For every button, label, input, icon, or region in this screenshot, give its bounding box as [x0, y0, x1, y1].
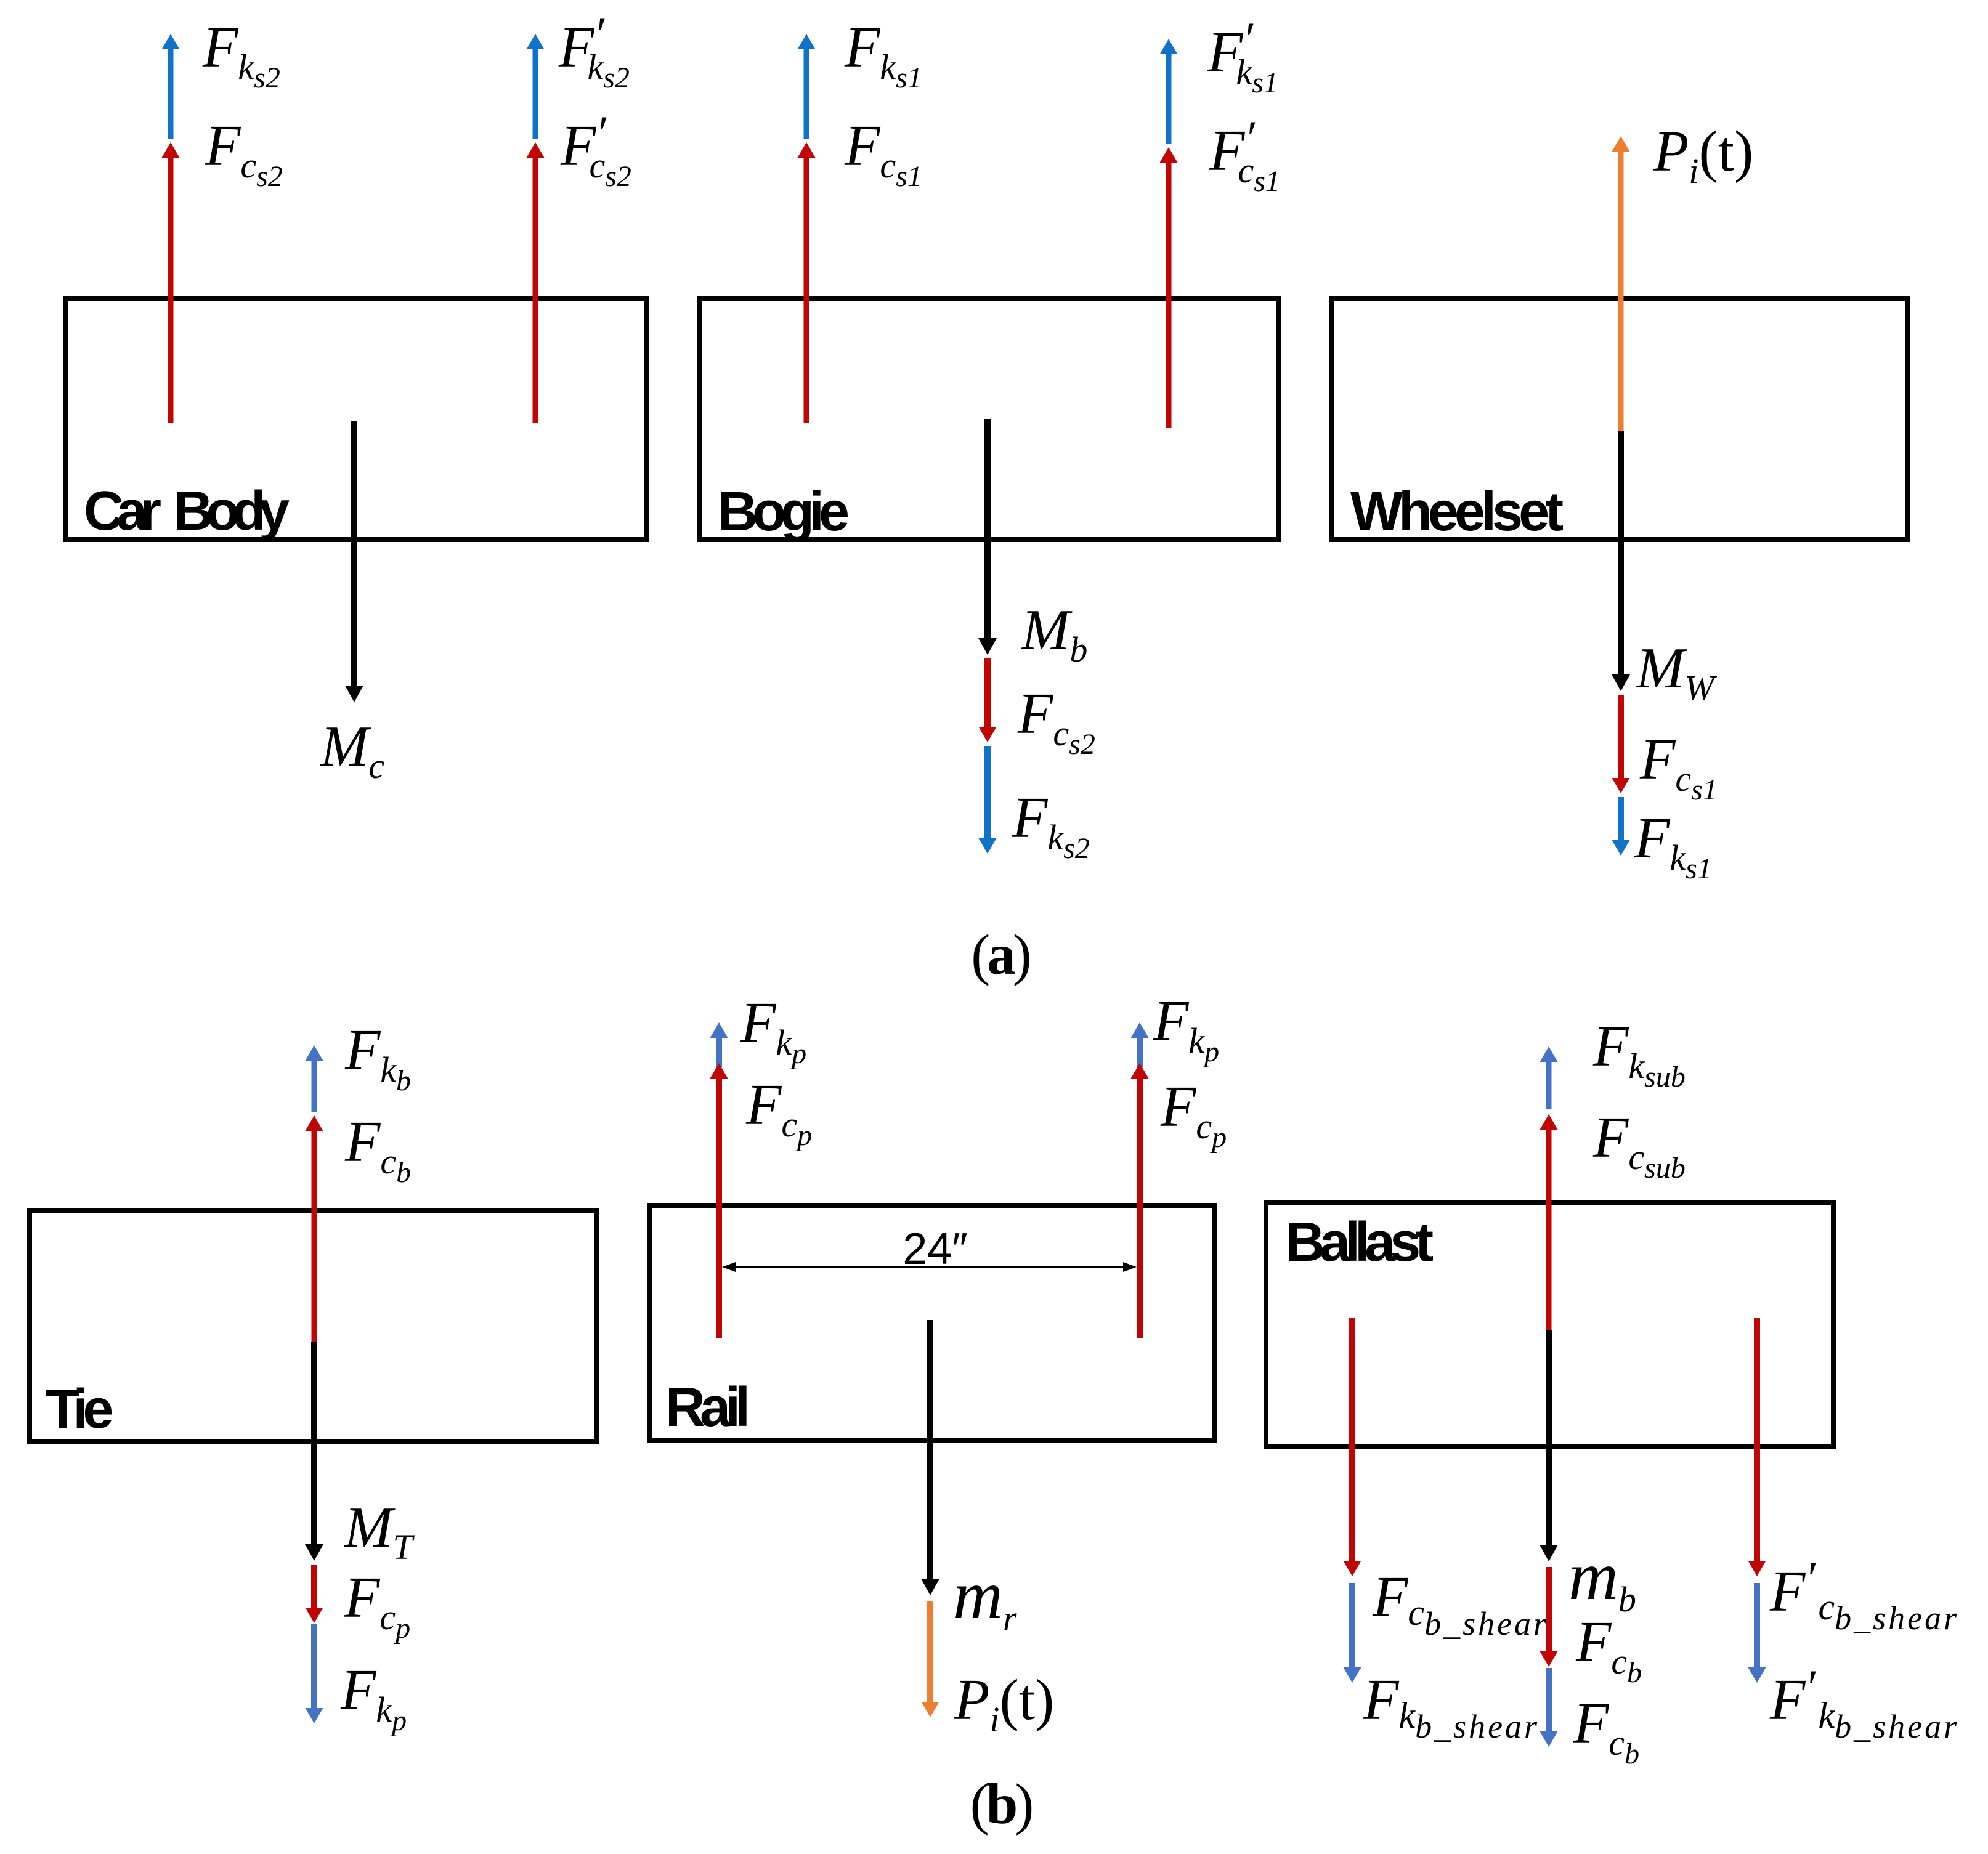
svg-text:F′cb_shear: F′cb_shear — [1769, 1552, 1959, 1637]
svg-text:(a): (a) — [971, 923, 1029, 987]
svg-text:MW: MW — [1635, 636, 1717, 708]
svg-text:Fkp: Fkp — [340, 1658, 407, 1737]
svg-text:F′ks2: F′ks2 — [558, 7, 630, 94]
svg-text:Fcb: Fcb — [344, 1110, 411, 1189]
svg-text:MT: MT — [343, 1496, 415, 1567]
svg-text:Bogie: Bogie — [718, 481, 848, 543]
svg-text:Fcb: Fcb — [1573, 1691, 1639, 1770]
svg-text:Pi(t): Pi(t) — [1653, 119, 1753, 191]
svg-text:(b): (b) — [970, 1773, 1032, 1836]
svg-text:mr: mr — [953, 1557, 1017, 1638]
svg-text:Fkb: Fkb — [344, 1018, 411, 1097]
svg-text:Mc: Mc — [319, 714, 384, 786]
svg-text:Fks1: Fks1 — [844, 15, 922, 94]
svg-text:F′ks1: F′ks1 — [1207, 12, 1278, 99]
svg-text:Pi(t): Pi(t) — [954, 1668, 1054, 1739]
svg-text:Rail: Rail — [665, 1377, 747, 1438]
svg-text:Fkp: Fkp — [1153, 989, 1219, 1068]
svg-text:F′cs1: F′cs1 — [1209, 111, 1280, 198]
svg-text:Wheelset: Wheelset — [1350, 481, 1563, 543]
svg-text:Fksub: Fksub — [1592, 1014, 1686, 1093]
svg-text:Tie: Tie — [46, 1378, 112, 1440]
svg-text:Fks2: Fks2 — [202, 15, 280, 94]
svg-text:Fkp: Fkp — [740, 991, 806, 1070]
svg-text:mb: mb — [1568, 1538, 1636, 1619]
svg-text:Fcp: Fcp — [344, 1566, 410, 1645]
svg-text:Ballast: Ballast — [1285, 1212, 1433, 1273]
svg-text:Fcs1: Fcs1 — [1639, 727, 1718, 806]
svg-text:Fks2: Fks2 — [1012, 786, 1090, 865]
svg-text:Fcp: Fcp — [1160, 1075, 1227, 1154]
svg-text:Fcp: Fcp — [745, 1073, 812, 1152]
svg-text:24″: 24″ — [903, 1225, 968, 1274]
svg-text:F′cs2: F′cs2 — [560, 106, 631, 193]
svg-text:Fcs2: Fcs2 — [1017, 682, 1095, 761]
svg-text:Fcb_shear: Fcb_shear — [1372, 1565, 1549, 1642]
svg-text:Fcs1: Fcs1 — [844, 114, 922, 193]
svg-text:Fcsub: Fcsub — [1592, 1106, 1686, 1184]
svg-text:Car Body: Car Body — [84, 480, 290, 542]
svg-text:Fcs2: Fcs2 — [205, 114, 283, 193]
svg-text:Fkb_shear: Fkb_shear — [1363, 1668, 1540, 1745]
svg-text:Fcb: Fcb — [1575, 1610, 1642, 1689]
svg-text:F′kb_shear: F′kb_shear — [1769, 1660, 1959, 1745]
svg-text:Mb: Mb — [1020, 598, 1087, 670]
svg-text:Fks1: Fks1 — [1634, 806, 1712, 885]
